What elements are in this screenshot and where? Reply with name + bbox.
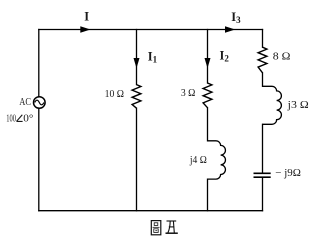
glyph tu (picture) [151,221,161,235]
svg-text:0°: 0° [23,114,33,125]
inductor j3ohm [263,86,282,124]
inductor j4ohm [208,141,226,179]
svg-text:− j9Ω: − j9Ω [275,167,301,179]
svg-text:AC: AC [19,97,31,108]
glyph wu (five) [166,221,178,233]
resistor 10ohm [132,85,141,109]
label 100∠0° [6,114,33,125]
arrow current I [80,26,90,33]
AC source V1 [34,97,46,109]
wire branch1 [136,30,138,211]
svg-text:3 Ω: 3 Ω [181,87,196,99]
svg-text:8 Ω: 8 Ω [273,50,291,62]
wire branch3 [262,30,264,211]
arrow current I3 [225,26,235,33]
svg-text:j3 Ω: j3 Ω [287,99,309,111]
svg-text:100: 100 [6,114,16,125]
resistor 8ohm [258,47,267,73]
wire branch2 [207,30,209,211]
wire left lower [38,109,40,211]
resistor 3ohm [203,83,212,108]
svg-text:10 Ω: 10 Ω [105,88,124,100]
svg-text:I: I [84,9,89,23]
capacitor -j9ohm [254,173,271,177]
caption figure five (CJK drawn as paths) [151,221,178,235]
wire top [39,29,263,31]
arrow current I1 [134,58,140,68]
wire bottom [39,210,263,212]
svg-text:j4 Ω: j4 Ω [189,154,207,166]
arrow current I2 [205,58,211,68]
wire left upper [38,30,40,97]
